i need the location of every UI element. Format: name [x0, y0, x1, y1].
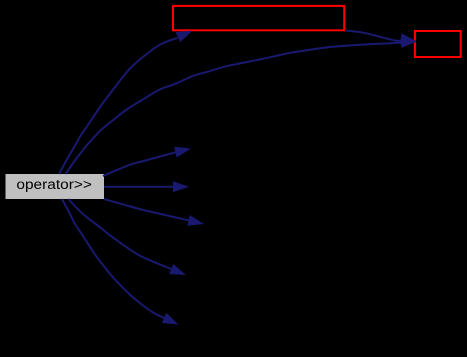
svg-text:operator>>: operator>>: [16, 177, 92, 192]
